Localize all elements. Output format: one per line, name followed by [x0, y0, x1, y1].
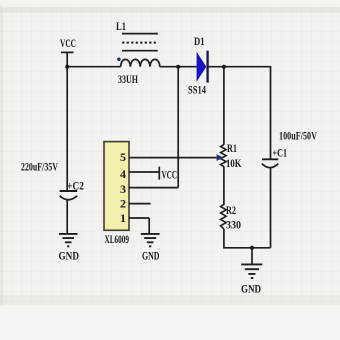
wire top rail left [67, 66, 120, 68]
svg-text:100uF/50V: 100uF/50V [279, 129, 317, 143]
pin 4 [120, 167, 126, 181]
pin 5 [120, 150, 126, 164]
svg-text:GND: GND [59, 249, 80, 263]
wire R2 to bottom rail [223, 229, 270, 249]
svg-text:2: 2 [120, 197, 126, 211]
wire resistor chain vertical top [223, 67, 225, 145]
wire pin5 feedback with wiper arrow [129, 154, 223, 161]
node bottom junction [250, 246, 254, 250]
svg-text:XL6009: XL6009 [105, 232, 130, 246]
node SW junction [176, 65, 180, 69]
svg-text:L1: L1 [116, 19, 126, 33]
svg-text:D1: D1 [194, 34, 205, 48]
svg-text:330: 330 [226, 218, 241, 232]
capacitor C2 220uF/35V [21, 160, 84, 200]
power VCC symbol [60, 36, 76, 52]
svg-text:GND: GND [142, 249, 160, 263]
ground middle [141, 234, 160, 263]
wire pin 4 to VCC port [129, 167, 177, 182]
inductor L1 [116, 19, 160, 86]
node output junction [222, 65, 226, 69]
IC U1 XL6009 [104, 142, 129, 246]
wire R1 to R2 [223, 167, 225, 205]
wire output right vertical [270, 66, 272, 159]
svg-text:3: 3 [120, 182, 126, 196]
capacitor C1 100uF/50V [262, 129, 317, 168]
svg-text:1: 1 [120, 211, 126, 225]
pin 2 [120, 197, 126, 211]
wire pin 2 stub [129, 203, 151, 205]
ground right [241, 264, 262, 295]
svg-text:220uF/35V: 220uF/35V [21, 160, 58, 174]
wire C1 to bottom rail [270, 168, 272, 248]
svg-text:10K: 10K [226, 156, 242, 170]
wire bottom junction to ground [251, 248, 253, 264]
svg-text:VCC: VCC [60, 36, 76, 50]
resistor R1 10K trimmer [221, 141, 242, 170]
svg-text:+C2: +C2 [67, 179, 84, 193]
pin 1 [120, 211, 126, 225]
wire C2 to ground [66, 200, 68, 234]
svg-text:R1: R1 [227, 141, 237, 155]
svg-text:GND: GND [241, 282, 261, 296]
svg-text:5: 5 [120, 150, 126, 164]
pin 3 [120, 182, 126, 196]
wire top rail middle [160, 66, 197, 68]
wire top rail right [208, 66, 271, 68]
svg-text:SS14: SS14 [188, 83, 206, 97]
node VCC junction [65, 65, 69, 69]
ground left [59, 234, 80, 263]
svg-text:+C1: +C1 [273, 146, 288, 160]
wire pin 1 to ground [129, 218, 149, 234]
svg-text:R2: R2 [226, 203, 236, 217]
svg-text:33UH: 33UH [118, 72, 138, 86]
resistor R2 330 [221, 203, 241, 232]
svg-text:VCC: VCC [162, 170, 178, 182]
wire VCC vertical to C2 [66, 52, 68, 190]
wire SW vertical to pin 3 [129, 67, 178, 188]
svg-text:4: 4 [120, 167, 126, 181]
diode D1 SS14 [188, 34, 208, 97]
